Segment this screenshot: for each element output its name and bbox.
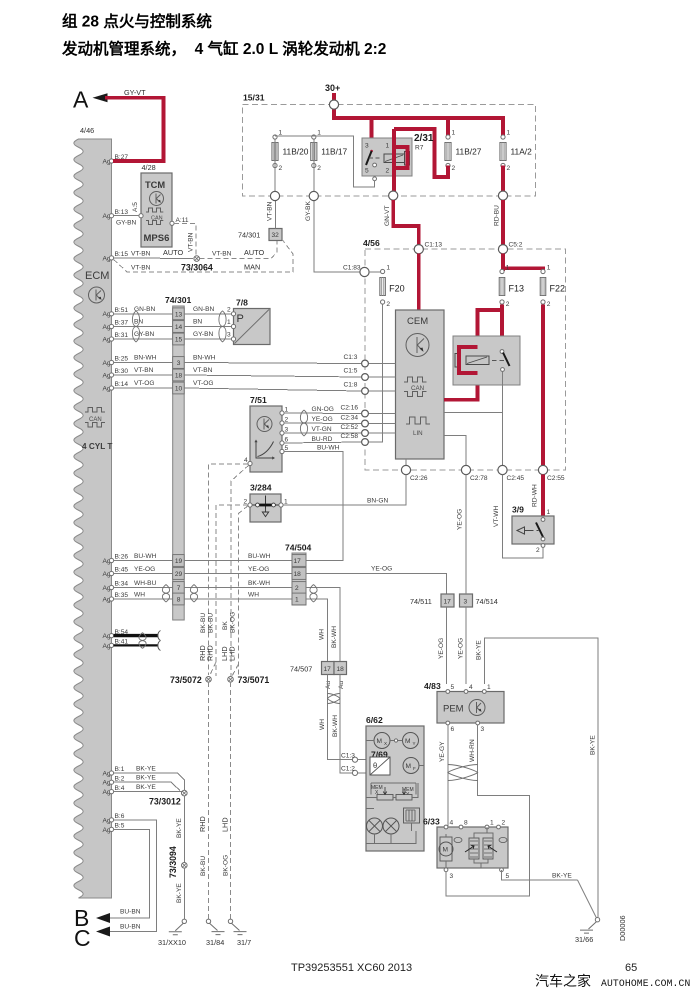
svg-text:MAN: MAN [244,263,260,272]
svg-text:15: 15 [175,337,183,344]
svg-text:1: 1 [227,319,231,326]
svg-text:B:26: B:26 [115,554,129,561]
relay in 4/56 [453,336,520,385]
svg-text:4/28: 4/28 [142,163,156,172]
svg-text:1: 1 [547,264,551,271]
red branch to fuse 11B/27 [446,118,450,137]
svg-text:M: M [443,847,449,854]
svg-text:4: 4 [244,457,248,464]
svg-text:GN-BN: GN-BN [193,306,214,313]
svg-text:VT-GN: VT-GN [312,426,332,433]
svg-text:D00006: D00006 [618,915,627,941]
svg-text:BK-WH: BK-WH [332,715,339,737]
shielded stub B:41 [114,644,158,646]
svg-text:RHD: RHD [206,645,215,661]
shielded stub B:54 [114,634,158,637]
svg-text:2: 2 [452,165,456,172]
svg-text:C1:13: C1:13 [425,242,443,249]
svg-text:CAN: CAN [411,385,424,392]
node C1:3 of 6/62 [352,757,357,762]
7/51 characteristic curve symbol [256,441,274,458]
svg-text:RD-BU: RD-BU [494,205,501,226]
svg-text:CAN: CAN [151,215,163,221]
CEM CAN symbol [404,377,427,397]
node C1:13 [414,245,423,254]
svg-text:M: M [406,763,412,770]
svg-text:31/XX10: 31/XX10 [158,938,186,947]
svg-text:BK: BK [222,621,229,630]
node C2:58 on 4/56 edge [362,439,369,446]
svg-text:74/301: 74/301 [165,295,192,305]
wire BU-RD to C2:58 [284,442,361,443]
node GN-VT on 15/31 edge [389,191,398,200]
wire RD-BU red to C5:2 [501,200,505,249]
74/301 pin 8 [173,593,185,605]
fuse box 15/31 (dashed) [243,105,536,196]
svg-text:Au: Au [338,681,345,689]
svg-text:6/62: 6/62 [366,715,383,725]
svg-text:B:35: B:35 [115,592,129,599]
splice 73/5072 [210,662,217,676]
svg-text:2: 2 [386,168,390,175]
heater element [404,808,420,823]
svg-text:YE-GY: YE-GY [439,741,446,762]
svg-text:PEM: PEM [443,704,464,715]
svg-text:BK-YE: BK-YE [590,735,597,755]
twisted pair marks 7/51 rows [300,410,307,436]
svg-text:3: 3 [227,332,231,339]
svg-text:13: 13 [175,311,183,318]
wire WH-BU row B pin to 74/504 [114,587,292,589]
svg-text:WH-RN: WH-RN [469,739,476,762]
wire YE-GY PEM pin6 to 6/33 pin4 [447,725,449,826]
svg-text:2: 2 [547,301,551,308]
svg-text:VT-OG: VT-OG [134,380,155,387]
svg-text:WH: WH [248,591,259,598]
svg-text:VT-BN: VT-BN [193,367,213,374]
wire GY-BN B:13 to TCM A:5 [114,215,139,217]
svg-text:32: 32 [272,232,280,239]
svg-text:BK-BU: BK-BU [200,613,207,633]
svg-text:B:5: B:5 [115,823,125,830]
svg-text:RD-WH: RD-WH [532,484,539,507]
svg-text:M: M [377,738,383,745]
svg-text:B:6: B:6 [115,813,125,820]
svg-text:B:1: B:1 [115,766,125,773]
node C2:78 [461,465,470,474]
PEM module 4/83 [424,681,504,733]
svg-text:VT-BN: VT-BN [267,201,274,221]
svg-text:AUTO: AUTO [244,248,264,257]
svg-text:11B/20: 11B/20 [283,147,309,157]
relay 2/31 pin 2 red to node GN-VT [392,168,396,192]
svg-text:2: 2 [279,165,283,172]
74/504 pin 2 [292,582,306,594]
svg-text:CEM: CEM [407,316,428,327]
svg-text:31/84: 31/84 [206,938,224,947]
svg-text:BU-BN: BU-BN [120,909,141,916]
svg-text:C1:3: C1:3 [341,752,355,759]
svg-text:BU-RD: BU-RD [312,436,333,443]
svg-text:GY-BN: GY-BN [116,220,137,227]
svg-text:8: 8 [464,820,468,827]
wire VT-WH 3/9 pin2 to C2:45 [503,475,544,558]
svg-text:73/3064: 73/3064 [181,263,213,273]
node 30+ on 15/31 edge [329,100,338,109]
wire VT-BN AUTO dashed from 73/3064 to connector 74/301 pin 32 [200,241,278,259]
red branch to relay 2/31 pin 3 [370,118,374,150]
twisted pair marks rows 13-15 [132,311,139,342]
red GN-VT from C1:13 into CEM [417,254,421,311]
svg-text:18: 18 [294,571,302,578]
wire YE-OG 74/511 to PEM pin5 [446,607,448,684]
node VT-BN on 15/31 edge [270,191,279,200]
svg-text:C2:55: C2:55 [547,475,565,482]
3/9 arrow symbol [525,530,539,532]
svg-text:A: A [73,87,89,113]
svg-text:汽车之家: 汽车之家 [535,973,591,989]
dashed ground lead LHD [230,682,232,919]
svg-text:BN-WH: BN-WH [134,355,157,362]
svg-text:73/5072: 73/5072 [170,675,202,685]
wire CEM to C2:26 [405,459,407,465]
svg-text:73/3012: 73/3012 [149,797,181,807]
svg-text:1: 1 [487,684,491,691]
74/504 pin 17 [292,555,306,567]
control module 6/62 [366,715,424,851]
fuse F13 [499,264,524,308]
svg-text:5: 5 [451,684,455,691]
svg-text:BK-YE: BK-YE [136,784,156,791]
svg-text:8: 8 [177,597,181,604]
wire GY-BN row B:31 [114,338,231,340]
svg-text:B:37: B:37 [115,320,129,327]
svg-text:YE-OG: YE-OG [134,566,155,573]
svg-text:BK-YE: BK-YE [136,766,156,773]
fuse 11B/27 [445,130,482,173]
fuse F20 [380,264,405,308]
svg-text:74/504: 74/504 [285,543,312,553]
wire BN-GN from 3/284 pin1 to C2:26 [283,475,406,505]
svg-text:VT-BN: VT-BN [134,367,154,374]
svg-text:6/33: 6/33 [423,817,440,827]
wire WH 74/507-17 down to 6/62 C1:3 [328,675,353,760]
svg-text:BK-YE: BK-YE [136,775,156,782]
wires fuses to bottom nodes [275,140,314,192]
svg-text:73/3094: 73/3094 [168,846,178,878]
relay 2/31 pin 5 contact [373,163,377,167]
wire YE-OG 74/514 to PEM pin4 [465,607,467,684]
node C2:16 on 4/56 edge [362,410,369,417]
svg-text:YE-OG: YE-OG [458,638,465,659]
74/301 pin 18 [173,369,185,381]
svg-text:B:25: B:25 [115,356,129,363]
svg-text:C2:26: C2:26 [410,475,428,482]
svg-text:2: 2 [507,165,511,172]
ground 31/7 [228,919,232,923]
svg-text:M: M [405,738,411,745]
motor My [403,733,419,749]
svg-text:3: 3 [177,360,181,367]
svg-text:6: 6 [451,726,455,733]
hidden: relay sw down actually to 412 joins CEM wire [502,385,504,413]
wire B:5 to connector arrow B [110,829,150,918]
svg-text:17: 17 [324,666,332,673]
fuse 11B/17 [311,130,348,173]
ground 31/XX10 [182,919,186,923]
svg-text:4/83: 4/83 [424,681,441,691]
wire BK-WH from 74/504 pin2 to 74/507 pin18 [306,588,340,662]
splice 73/5071 [232,664,239,677]
svg-text:B:45: B:45 [115,567,129,574]
svg-text:Au: Au [325,681,332,689]
svg-text:2: 2 [386,301,390,308]
ground 31/84 [206,919,210,923]
solenoid unit 6/33 [423,817,510,881]
3/9 lever [536,523,544,539]
wire RD-WH red C2:55 to 3/9 [541,475,545,517]
svg-text:YE-OG: YE-OG [312,416,333,423]
svg-text:10: 10 [175,386,183,393]
wire WH row B pin to 74/504 [114,598,292,600]
svg-text:F20: F20 [389,284,405,294]
svg-text:7/51: 7/51 [250,395,267,405]
wire VT-GN to C2:52 [284,432,361,434]
svg-text:1: 1 [285,407,289,414]
lamps [367,818,383,834]
svg-text:B:51: B:51 [115,307,129,314]
svg-text:11B/27: 11B/27 [456,147,482,157]
CEM LIN symbol [406,417,430,424]
svg-text:RHD: RHD [198,816,207,832]
svg-text:YE-OG: YE-OG [457,509,464,530]
svg-text:F13: F13 [509,284,525,294]
svg-text:30+: 30+ [325,83,340,93]
sensor 7/51 [244,395,289,472]
svg-text:MPS6: MPS6 [144,233,170,244]
svg-text:BK-YE: BK-YE [552,873,572,880]
svg-text:BN-GN: BN-GN [367,497,388,504]
svg-text:1: 1 [279,130,283,137]
wire BK-YE PEM pin1 up and right [484,638,598,917]
svg-text:VT-WH: VT-WH [493,506,500,527]
svg-text:74/301: 74/301 [238,231,260,240]
node C5:2 [498,245,507,254]
red wire through 11A/2 to node RD-BU [501,166,505,193]
node C1:8 on 4/56 edge [362,388,369,395]
dashed ground lead RHD [208,682,210,919]
svg-text:2: 2 [317,165,321,172]
svg-text:BU-BN: BU-BN [120,924,141,931]
fuse F22 [540,264,565,308]
svg-text:17: 17 [294,558,302,565]
svg-text:VT-BN: VT-BN [188,232,195,252]
svg-text:A:5: A:5 [132,202,139,212]
74/301 pin 10 [173,382,185,394]
svg-text:BK-OG: BK-OG [223,855,230,876]
wire BK-WH 74/507-18 down to 6/62 C1:2 [340,675,352,773]
svg-text:B:30: B:30 [115,368,129,375]
svg-text:1: 1 [547,509,551,516]
node C2:52 on 4/56 edge [362,430,369,437]
svg-text:LHD: LHD [228,646,237,661]
svg-text:C1:2: C1:2 [341,766,355,773]
svg-text:B:15: B:15 [115,251,129,258]
connector 74/514 pin 3 [460,594,473,607]
svg-text:18: 18 [337,666,345,673]
svg-text:B:4: B:4 [115,785,125,792]
svg-text:BK-YE: BK-YE [176,818,183,838]
svg-text:GY-VT: GY-VT [124,88,146,97]
svg-text:TCM: TCM [145,180,165,190]
node C2:55 [538,465,547,474]
svg-text:C1:8: C1:8 [344,382,358,389]
svg-text:74/514: 74/514 [476,597,498,606]
6/33 pump motor [439,842,453,856]
wire WH-RN PEM pin3 around to 6/33 pin3 [446,725,530,896]
node C1:2 of 6/62 [352,770,357,775]
svg-text:YE-OG: YE-OG [371,566,392,573]
svg-text:BU-WH: BU-WH [317,444,340,451]
relay 2/31 R7 [362,129,434,192]
svg-text:C: C [74,925,91,951]
wire YE-OG row B pin to 74/504 [114,573,292,575]
connector 74/301 pin 32 [269,229,282,241]
svg-text:1: 1 [386,143,390,150]
svg-text:VT-OG: VT-OG [193,380,214,387]
svg-text:F: F [413,766,416,771]
svg-text:3/9: 3/9 [512,505,524,515]
svg-text:1: 1 [317,130,321,137]
svg-text:VT-BN: VT-BN [131,251,151,258]
TCM module 4/28 [141,173,172,247]
svg-text:3: 3 [481,726,485,733]
74/301 pin 7 [173,582,185,594]
svg-text:LIN: LIN [413,430,423,437]
ECM CAN symbol [85,408,105,428]
dashed wire 3/284 pin2 RHD [216,505,248,676]
svg-text:C2:45: C2:45 [507,475,525,482]
74/504 pin 1 [292,593,306,605]
node C2:45 [498,465,507,474]
dashed wire 7/51 pin4 RHD [209,464,249,675]
red from C5:2 to fuses F13 F22 [503,254,543,272]
svg-text:C2:78: C2:78 [470,475,488,482]
CEM fuse box 4/56 (dashed) [365,249,566,470]
wire VT-BN from TCM A:11 (dashed) to junction 73/3064 [174,223,196,255]
svg-text:LHD: LHD [221,817,230,832]
svg-text:VT-BN: VT-BN [212,251,232,258]
red wire fuse 11B/27 to relay coil pin 1 [394,129,448,177]
svg-text:29: 29 [175,571,183,578]
svg-text:AUTOHOME.COM.CN: AUTOHOME.COM.CN [601,978,690,989]
splice junction 73/3064 [181,256,213,273]
svg-text:F22: F22 [550,284,566,294]
wire GN-BN row B:51 [114,313,231,315]
svg-text:1: 1 [295,597,299,604]
svg-text:GY-BN: GY-BN [193,331,214,338]
svg-text:1: 1 [506,264,510,271]
svg-text:2: 2 [295,585,299,592]
svg-text:2: 2 [227,306,231,313]
svg-text:3: 3 [285,427,289,434]
svg-text:VT-BN: VT-BN [131,264,151,271]
sensor 3/284 [244,483,289,523]
red supply bus [332,118,503,137]
connector 74/511 pin 17 [441,594,454,607]
wire BK-YE 6/33 pin5 to ground joint [502,870,578,880]
wire C1:83 to F20 pin1 [369,271,380,273]
wire BK-YE to ground 31/XX10 [183,868,185,919]
TCM CAN symbol [146,208,163,225]
sensor 7/8 (P) [227,298,270,345]
svg-text:Y: Y [413,741,416,746]
svg-text:65: 65 [625,962,637,974]
svg-text:P: P [237,313,244,325]
wire VT-OG row B:14 to C1:8 [114,388,361,391]
svg-text:31/7: 31/7 [237,938,251,947]
svg-text:18: 18 [175,373,183,380]
relay 2/31 coil with red loop [384,154,405,163]
svg-text:C5:2: C5:2 [509,242,523,249]
svg-text:2: 2 [285,417,289,424]
splice 73/3094 [182,863,188,869]
svg-text:1: 1 [284,499,288,506]
node C1:5 on 4/56 edge [362,374,369,381]
wire YE-OG to C2:34 [284,422,361,425]
wire BU-WH from 7/51 pin5 to 74/504 pin17 [284,452,343,561]
svg-text:14: 14 [175,324,183,331]
wire VT-BN MAN dashed from B:15 to 74/301 pin 32 [114,241,293,272]
svg-text:73/5071: 73/5071 [238,675,270,685]
svg-text:BK-BU: BK-BU [200,856,207,876]
3/284 internal symbol [253,496,279,509]
svg-text:4/46: 4/46 [80,126,94,135]
74/301 pin 15 [173,333,185,345]
wire F20 pin2 down to C2:58 [368,305,383,443]
74/301 pin 3 [173,357,185,369]
svg-text:6: 6 [285,437,289,444]
connector strip 74/504 [292,553,306,605]
svg-text:1: 1 [386,264,390,271]
74/504 pin 18 [292,568,306,580]
node C2:34 on 4/56 edge [362,420,369,427]
wire B:6 to connector arrow C [110,820,156,932]
svg-text:4: 4 [450,820,454,827]
wire YE-OG C2:78 to 74/514 [465,475,467,594]
svg-text:发动机管理系统， 4 气缸 2.0 L 涡轮发动机 2:2: 发动机管理系统， 4 气缸 2.0 L 涡轮发动机 2:2 [61,39,386,58]
wire WH from 74/504 pin1 to 74/507 pin17 [306,599,328,662]
wire VT-BN from 15/31 node down to 74/301 pin 32 [275,201,277,229]
svg-text:C1:83: C1:83 [343,265,361,272]
svg-text:2: 2 [244,499,248,506]
wires BK-YE B:1 B:2 B:4 to splice 73/3012 [114,773,185,792]
svg-text:4 CYL T: 4 CYL T [82,442,112,451]
svg-text:WH-BU: WH-BU [134,580,157,587]
motor Mx [374,733,390,749]
wire GY-VT (red) from A to ECM B:27 [105,98,163,161]
wire CEM LIN to C2:78 [444,436,466,466]
svg-text:74/507: 74/507 [290,665,312,674]
node C1:3 on 4/56 edge [362,360,369,367]
svg-text:组 28 点火与控制系统: 组 28 点火与控制系统 [62,12,212,31]
svg-text:AUTO: AUTO [163,248,183,257]
wire BN-WH row B:25 to C1:3 [114,363,361,364]
wire GN-OG to C2:16 [284,412,361,415]
svg-text:ECM: ECM [85,270,109,282]
svg-text:WH: WH [134,591,145,598]
relay coil red loop [466,356,489,365]
